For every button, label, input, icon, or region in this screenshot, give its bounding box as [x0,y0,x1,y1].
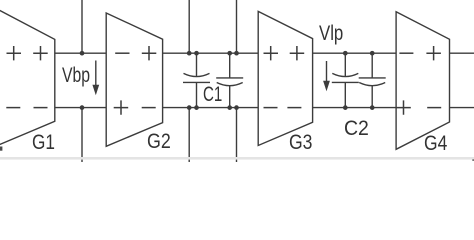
G4 input minus top [399,52,413,54]
page artifact: left edge mark [0,147,2,151]
wire bottom G2-G3 [163,107,259,109]
G4 input plus bottom [396,100,411,114]
wire feedback vertical C top [236,0,238,53]
transconductor G2 [106,13,162,146]
label G4 [424,134,447,155]
junction top C2 right [370,51,375,56]
junction bottom C2 right [370,105,375,110]
G1 input plus [7,46,22,60]
Vlp output arrow [323,61,330,91]
G2 input plus bottom [114,100,129,114]
junction bottom at G1-G2 [80,105,85,110]
G3 output minus bottom [287,107,301,109]
capacitor C1 right element [216,53,243,107]
G2 output minus bottom [142,107,156,109]
label Vlp [319,24,343,45]
junction bottom feedback C [234,105,239,110]
wire top G2-G3 [163,52,259,54]
wire feedback vertical B top [188,0,190,53]
capacitor C1 left element [183,53,210,107]
wire feedback vertical A bottom [81,108,83,162]
wire top G4-right edge [450,52,474,54]
capacitor C2 right element [359,53,386,107]
page artifact: bottom-right speck [472,159,474,161]
label Vbp [62,66,90,87]
page artifact: bottom gray band [0,157,474,160]
wire top G3-G4 [313,52,397,54]
transconductor G3 [258,11,312,145]
junction top at G1-G2 [80,51,85,56]
junction top C1 right [227,51,232,56]
junction bottom C2 left [343,105,348,110]
G4 output plus top [426,46,441,60]
G3 input minus bottom [264,107,278,109]
wire bottom G4-right edge [450,107,474,109]
junction top feedback B [187,51,192,56]
G2 output plus top [142,46,157,60]
label G2 [147,132,171,153]
junction top C1 left [194,51,199,56]
G4 output minus bottom [427,107,441,109]
wire top G1-G2 [55,52,106,54]
label G3 [289,133,312,154]
wire feedback vertical B bottom [188,108,190,162]
G1 output plus [33,46,48,60]
transconductor G4 [396,12,449,150]
G3 input plus top [264,46,279,60]
junction bottom C1 right [227,105,232,110]
Vbp output arrow [92,61,99,96]
label C2 [344,119,369,140]
wire bottom G1-G2 [55,107,106,109]
capacitor C2 left element [332,53,359,107]
G3 output plus top [290,46,305,60]
wire feedback vertical A top [81,0,83,53]
wire feedback vertical C bottom [236,108,238,162]
junction top C2 left [343,51,348,56]
label G1 [32,133,55,154]
transconductor G1 [0,10,55,146]
G1 input minus [6,107,20,109]
junction bottom feedback B [187,105,192,110]
junction bottom C1 left [194,105,199,110]
junction top feedback C [234,51,239,56]
G2 input minus top [115,52,129,54]
label C1 [203,85,222,106]
G1 output minus [34,107,48,109]
wire bottom G3-G4 [313,107,397,109]
